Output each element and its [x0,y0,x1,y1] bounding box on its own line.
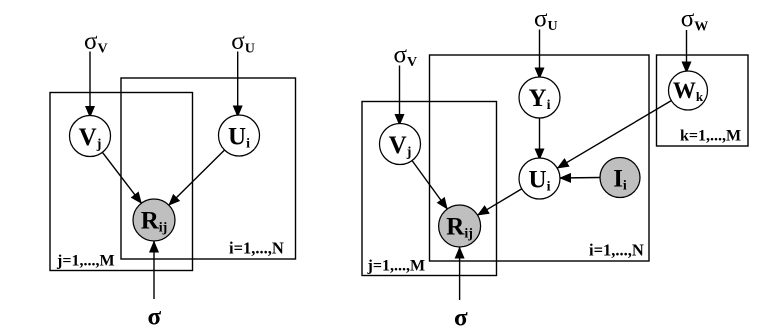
node U_i (right) [519,158,560,199]
svg-text:j=1,...,M: j=1,...,M [367,258,426,275]
svg-text:σV: σV [84,28,108,57]
svg-text:σW: σW [681,6,708,35]
node W_k (right) [669,71,708,110]
node R_ij (right) [439,205,481,247]
wire V_j to R_ij (left) [102,152,141,203]
wire Y_i to U_i (right) [539,118,541,160]
wire V_j to R_ij (right) [412,161,447,210]
svg-text:i=1,...,N: i=1,...,N [229,239,284,258]
wire sigma_U to U_i (left) [237,52,239,118]
svg-text:k=1,...,M: k=1,...,M [680,128,741,145]
plate j=1..M (right) [362,102,497,276]
svg-text:σU: σU [534,6,558,35]
svg-text:σ: σ [148,304,162,331]
node V_j (right) [380,124,421,165]
plate i=1..N (left) [121,78,296,259]
plate k=1..M (right) [657,55,749,146]
wire sigma_W to W_k (right) [686,30,688,73]
wire sigma_V to V_j (left) [89,52,91,118]
svg-text:σ: σ [454,305,468,332]
wire sigma_V to V_j (right) [399,66,401,126]
wire sigma to R_ij (left) [153,241,155,299]
plate i=1..N (right) [430,55,650,261]
node V_j (left) [70,116,111,157]
svg-text:σU: σU [231,28,255,57]
wire I_i to U_i (right) [560,177,600,180]
node U_i (left) [219,115,260,156]
wire sigma to R_ij (right) [459,247,461,300]
node I_i (right) [600,158,640,198]
node Y_i (right) [519,77,560,118]
node R_ij (left) [133,199,175,241]
wire U_i to R_ij (left) [169,150,225,205]
wire U_i to R_ij (right) [477,189,521,215]
plate j=1..M (left) [50,93,193,271]
svg-text:j=1,...,M: j=1,...,M [56,253,115,270]
svg-text:σV: σV [394,41,418,70]
wire sigma_U to Y_i (right) [539,30,541,80]
wire W_k to U_i (right) [557,101,671,169]
svg-text:i=1,...,N: i=1,...,N [589,241,644,260]
